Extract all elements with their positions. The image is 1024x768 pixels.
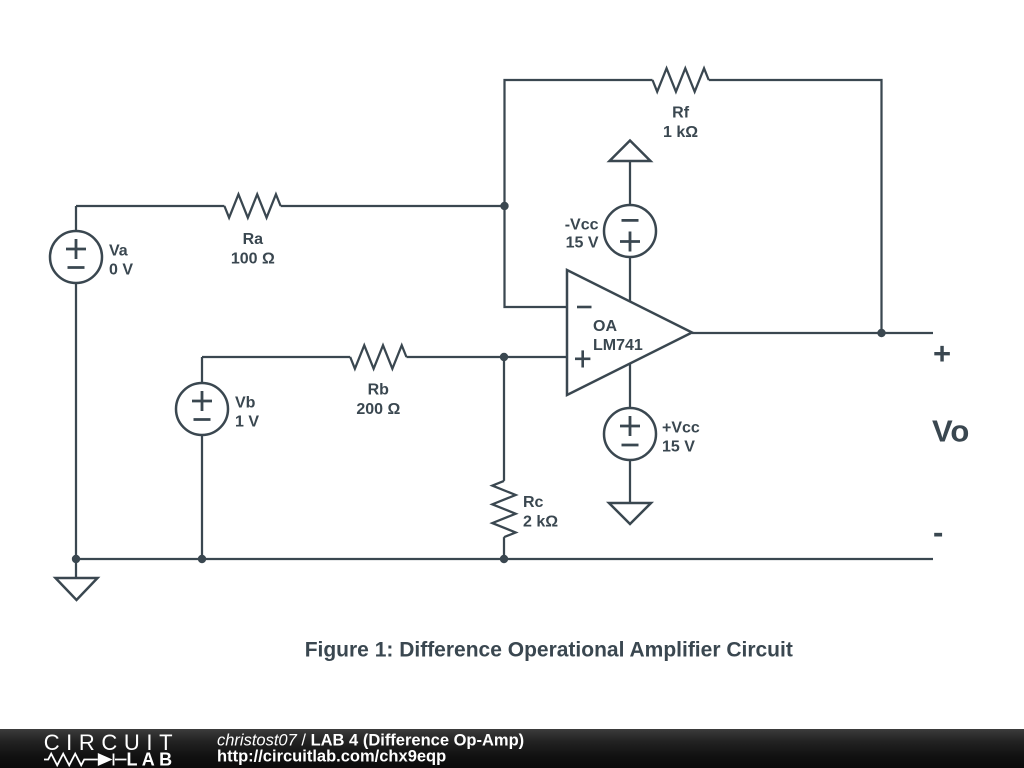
svg-text:100 Ω: 100 Ω bbox=[231, 250, 275, 267]
svg-text:15 V: 15 V bbox=[566, 235, 599, 252]
svg-text:Va: Va bbox=[109, 243, 128, 260]
svg-text:-Vcc: -Vcc bbox=[565, 217, 599, 234]
svg-text:1 V: 1 V bbox=[235, 414, 259, 431]
svg-text:0 V: 0 V bbox=[109, 262, 133, 279]
svg-text:LAB: LAB bbox=[127, 750, 177, 768]
svg-text:1 kΩ: 1 kΩ bbox=[663, 124, 698, 141]
svg-text:Rf: Rf bbox=[672, 104, 690, 121]
svg-text:Vb: Vb bbox=[235, 395, 256, 412]
svg-text:+Vcc: +Vcc bbox=[662, 420, 700, 437]
svg-text:-: - bbox=[933, 515, 943, 550]
svg-text:Ra: Ra bbox=[243, 231, 264, 248]
svg-text:Rb: Rb bbox=[368, 381, 390, 398]
svg-text:Figure 1: Difference Operation: Figure 1: Difference Operational Amplifi… bbox=[305, 639, 793, 662]
svg-text:OA: OA bbox=[593, 318, 617, 335]
svg-text:200 Ω: 200 Ω bbox=[356, 401, 400, 418]
svg-text:http://circuitlab.com/chx9eqp: http://circuitlab.com/chx9eqp bbox=[217, 748, 446, 766]
svg-text:Vo: Vo bbox=[932, 414, 969, 449]
svg-text:+: + bbox=[933, 336, 951, 371]
svg-text:15 V: 15 V bbox=[662, 439, 695, 456]
svg-text:2 kΩ: 2 kΩ bbox=[523, 514, 558, 531]
svg-text:LM741: LM741 bbox=[593, 337, 643, 354]
svg-text:Rc: Rc bbox=[523, 494, 544, 511]
